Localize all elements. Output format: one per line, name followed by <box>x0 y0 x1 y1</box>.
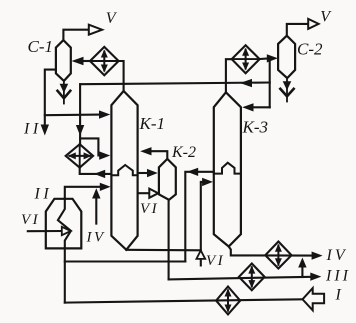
wire C-1 side draw <box>45 70 56 125</box>
svg-text:C-1: C-1 <box>28 37 54 56</box>
arrowhead up riser <box>298 258 306 268</box>
stream V open arrow (right) <box>308 19 318 29</box>
svg-text:K-2: K-2 <box>171 144 196 161</box>
separator C-2 <box>278 36 295 78</box>
wire C-2 liquid long line to left <box>80 83 269 85</box>
svg-text:VI: VI <box>140 201 159 217</box>
arrowhead into K-1 right <box>140 147 151 155</box>
svg-text:II: II <box>23 121 42 138</box>
E6 inner arrow <box>227 291 229 311</box>
arrowhead on K-3 draw <box>187 168 198 176</box>
svg-text:I: I <box>335 287 342 304</box>
drain arrowhead 1 <box>283 81 292 90</box>
wire K-1 to K-2 feed <box>138 172 149 174</box>
svg-text:VI: VI <box>21 212 40 228</box>
K-1 section break <box>111 165 137 175</box>
svg-text:K-3: K-3 <box>242 118 269 137</box>
column K-1 <box>111 91 137 250</box>
wire K-2 bottoms to III <box>169 277 312 280</box>
wire feed I line <box>65 299 303 302</box>
wire K-2 overhead to K-1 <box>152 151 168 159</box>
wire branch to K-1 middle inlet <box>80 138 100 155</box>
stream I open arrow <box>303 288 325 310</box>
wire K-1 draw to E3 <box>80 168 112 174</box>
wire E2 to C-2 <box>260 57 268 60</box>
stream VI open arrow (at K-3) <box>196 250 205 259</box>
E5 inner arrow <box>251 267 253 286</box>
T-1 inner zigzag <box>58 199 71 249</box>
arrowhead down on x80 wire <box>76 125 84 136</box>
stream IV output arrowhead <box>312 252 323 260</box>
stream VI line into T-1 <box>28 230 62 232</box>
svg-text:II: II <box>34 186 53 203</box>
exchanger E5 diamond <box>239 264 265 291</box>
wire C-2 reflux to K-3 top <box>253 106 270 108</box>
arrowhead into K-3 right <box>242 103 253 111</box>
stream III output arrowhead <box>310 273 321 281</box>
wire K-3 overhead <box>226 59 232 92</box>
stream VI open arrow into K-2 <box>149 189 158 198</box>
cooler E3 inner arrow <box>70 155 91 157</box>
wire C-2 overhead to V <box>287 24 308 36</box>
stream II output arrowhead <box>41 125 49 136</box>
C-2 water drain line <box>286 78 288 101</box>
cooler E2 inner arrow <box>245 50 247 69</box>
cooler E3 diamond (circulating reflux) <box>66 144 93 167</box>
wire K-2 bottoms down <box>168 200 170 280</box>
arrowhead into C-1 <box>72 57 84 65</box>
E4 inner arrow <box>277 246 279 265</box>
cooler E2 diamond <box>232 45 260 73</box>
wire transfer line D <box>65 260 186 262</box>
stream V open arrow (left) <box>89 25 102 35</box>
svg-text:VI: VI <box>206 253 225 269</box>
arrowhead into K-1 bottom <box>100 183 111 191</box>
K-3 section break <box>214 163 241 174</box>
wire C-2 liquid down <box>269 58 271 107</box>
wire T-1 bottom down <box>64 248 66 302</box>
column K-2 <box>159 159 176 200</box>
arrowhead into K-2 <box>147 169 158 177</box>
arrowhead into C-2 <box>267 54 278 62</box>
svg-text:C-2: C-2 <box>297 39 323 58</box>
arrowhead into K-1 top <box>99 110 110 118</box>
wire C-1 reflux to K-1 <box>45 114 100 117</box>
wire K-3 draw to left <box>185 172 214 262</box>
stream IV recycle stub <box>95 197 97 224</box>
wire cooler E1 to C-1 inlet <box>83 60 91 62</box>
cooler E1 inner arrow <box>103 52 105 71</box>
cooler E1 diamond <box>90 47 119 75</box>
wire E1 to K-1 overhead <box>119 61 124 91</box>
wire K-3 bottoms to IV <box>229 247 313 256</box>
column K-3 <box>214 92 241 246</box>
wire riser III to IV <box>301 267 303 278</box>
drain arrowhead 1 <box>60 84 69 93</box>
arrowhead on long line <box>240 79 252 87</box>
wire feed riser to K-3 <box>201 182 204 266</box>
drain barb 2 <box>280 89 293 97</box>
wire T-1 vapor to K-1 <box>65 187 101 199</box>
wire K-1 bottoms B <box>126 249 201 252</box>
exchanger E6 diamond <box>216 287 240 315</box>
arrowhead up into vapor wire <box>92 188 100 198</box>
arrowhead into K-3 left <box>202 178 213 186</box>
C-1 water drain line <box>63 81 65 104</box>
stream VI into K-2 line <box>139 192 149 194</box>
svg-text:IV: IV <box>86 230 106 246</box>
arrowhead on draw wire <box>94 170 105 178</box>
svg-text:K-1: K-1 <box>139 114 166 133</box>
evaporator T-1 <box>46 199 82 249</box>
drain barb 2 <box>58 91 71 99</box>
svg-text:IV: IV <box>326 247 348 264</box>
wire down at x80 <box>79 84 81 144</box>
arrowhead into K-1 middle <box>99 151 110 159</box>
wire C-1 overhead to V <box>63 30 88 40</box>
stream VI open arrow into T-1 <box>62 227 71 235</box>
exchanger E4 diamond <box>265 242 291 269</box>
svg-text:III: III <box>325 267 351 284</box>
separator C-1 <box>56 40 71 81</box>
